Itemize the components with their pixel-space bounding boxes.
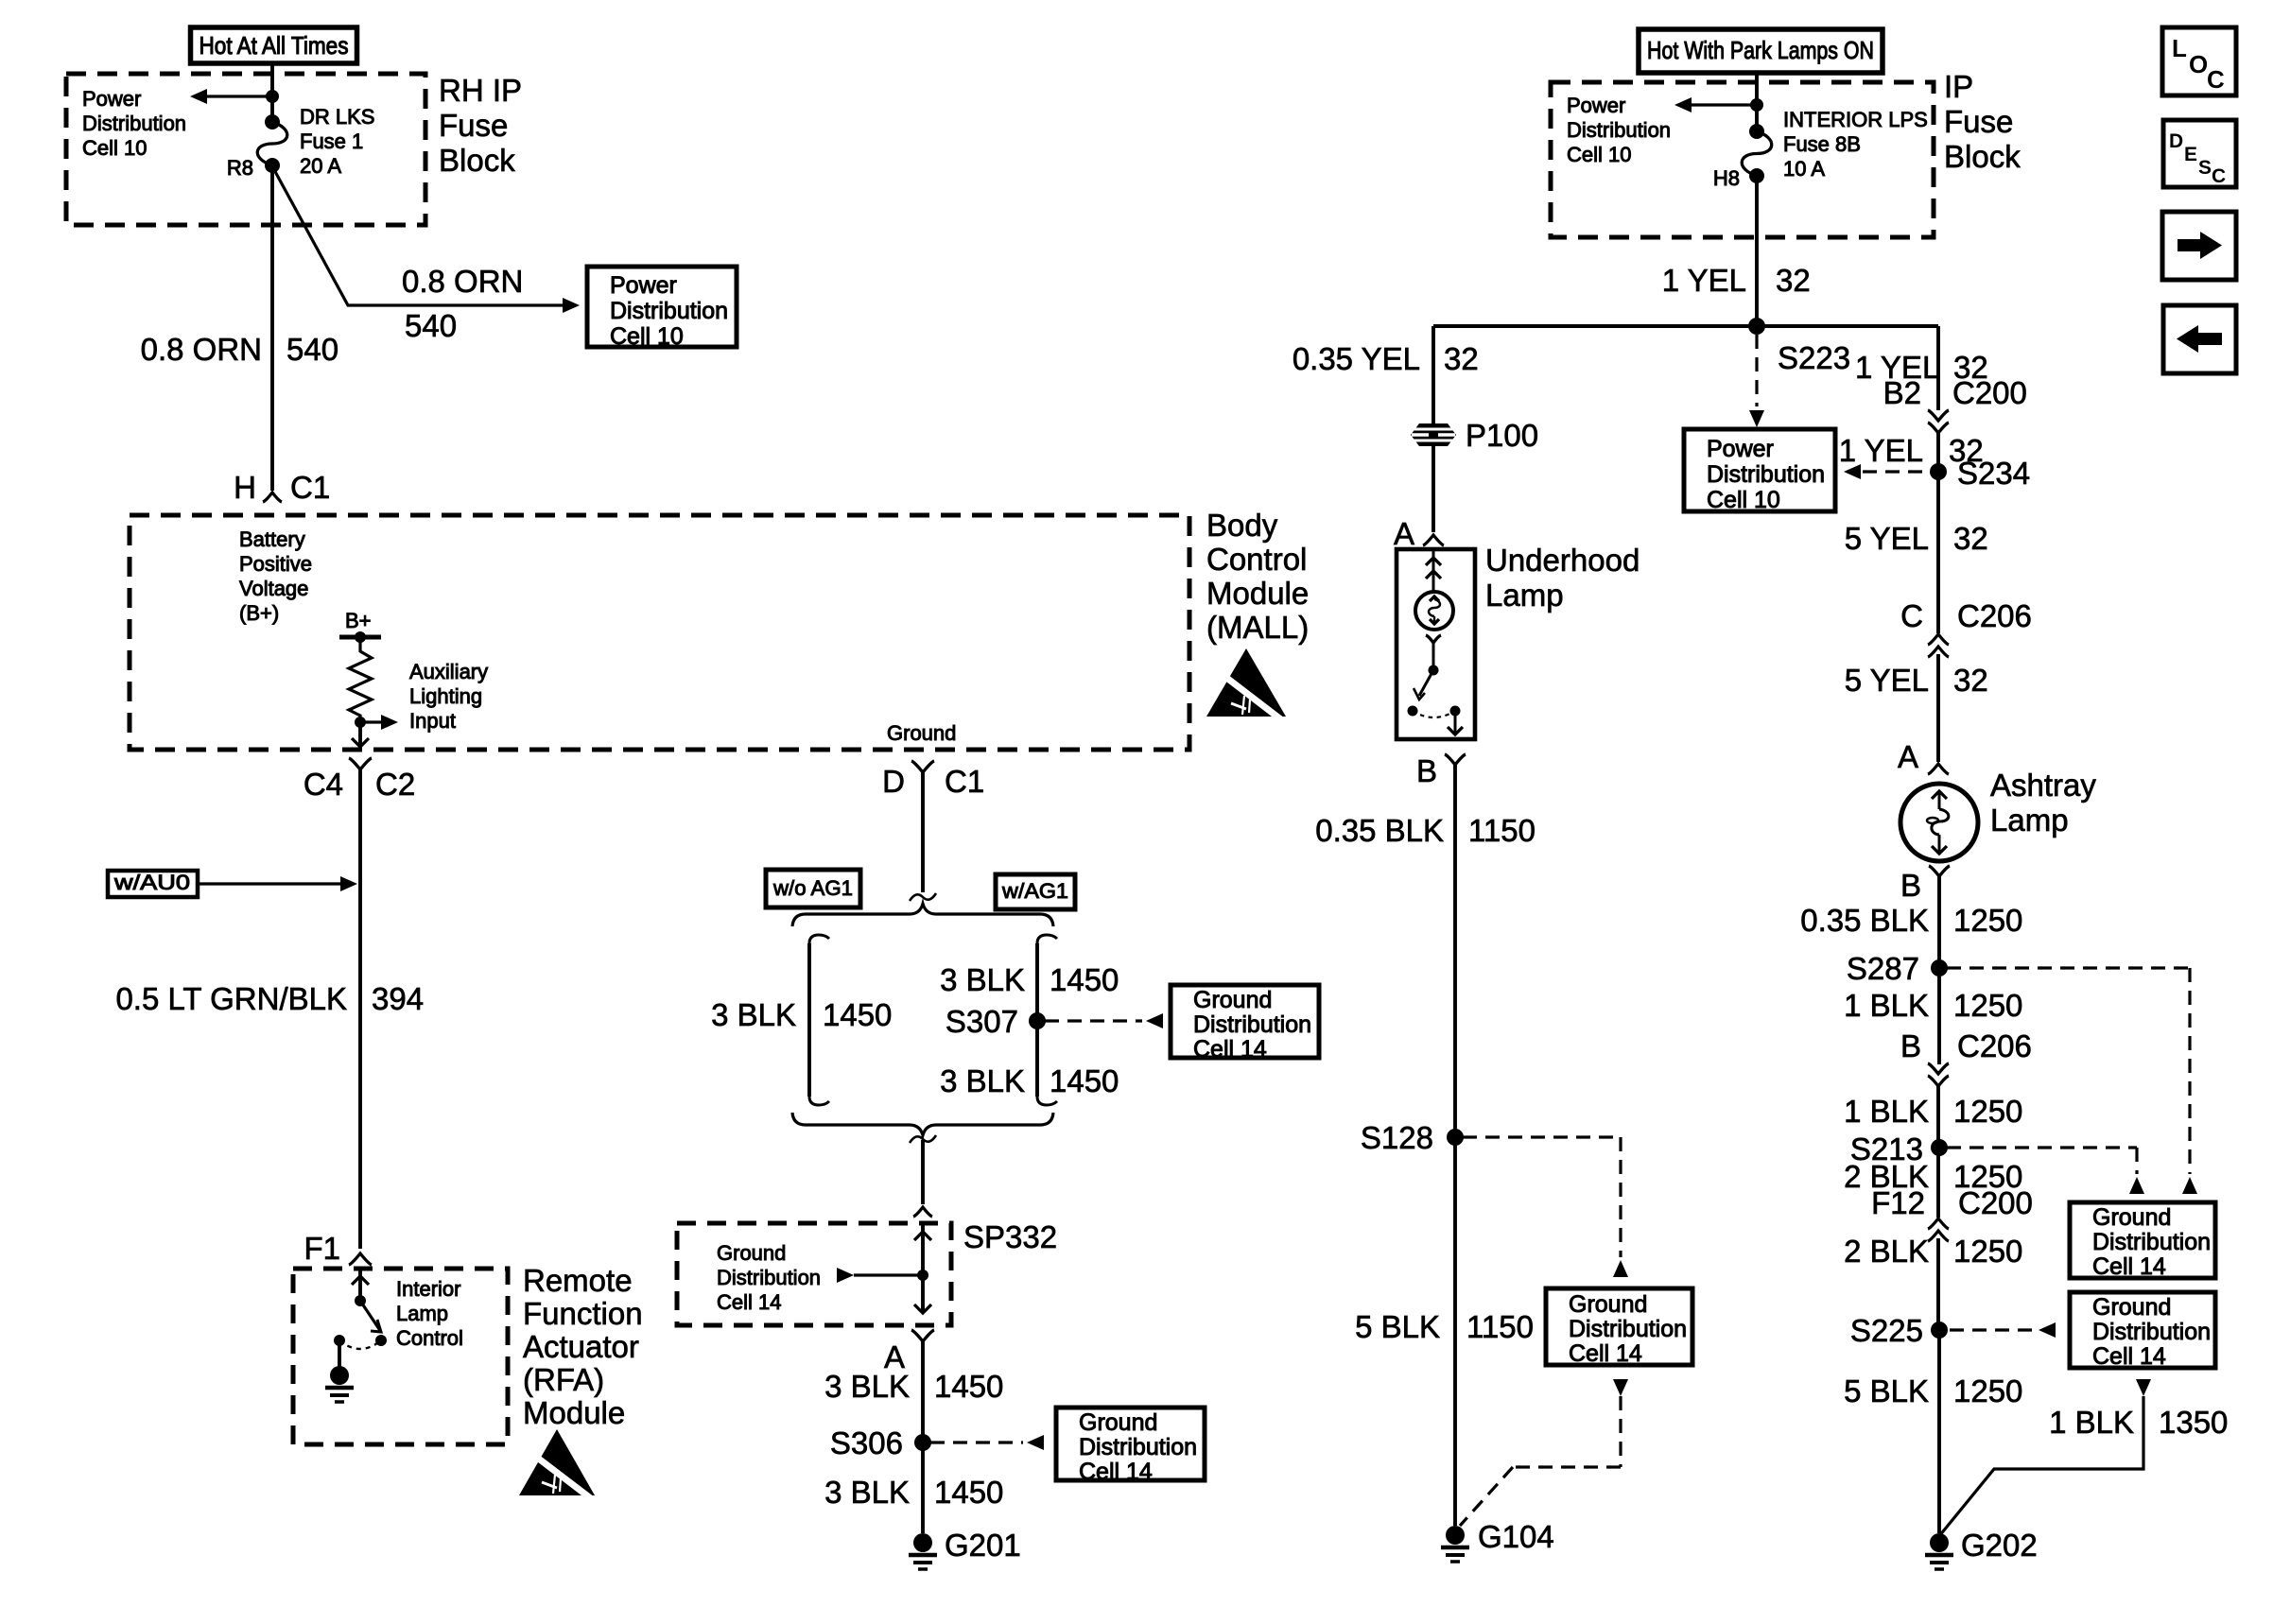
- svg-text:Cell 10: Cell 10: [82, 136, 147, 160]
- svg-text:0.35 YEL: 0.35 YEL: [1293, 341, 1420, 376]
- connector A below SP332 (chevron): [911, 1330, 934, 1341]
- IP Fuse Block dashed box: [1551, 82, 1934, 237]
- wire: left branch (w/o AG1): [809, 935, 829, 1105]
- break squiggle (top): [910, 893, 936, 901]
- label: 1 BLK 1250 (above C206 B): [1844, 988, 2022, 1023]
- svg-text:Lamp: Lamp: [1990, 803, 2069, 838]
- wire: C206 to S213: [1936, 1086, 1940, 1148]
- svg-text:5 BLK: 5 BLK: [1844, 1373, 1929, 1408]
- svg-text:Power: Power: [610, 272, 677, 299]
- svg-text:B+: B+: [345, 609, 372, 632]
- connector: ashtray lamp pin B (chevron): [1929, 866, 1950, 876]
- svg-text:2 BLK: 2 BLK: [1844, 1234, 1929, 1269]
- svg-text:Distribution: Distribution: [2092, 1229, 2211, 1255]
- svg-text:Lighting: Lighting: [409, 684, 482, 708]
- svg-text:Ashtray: Ashtray: [1990, 768, 2096, 803]
- fuse F8B: INTERIOR LPS Fuse 8B 10 A: [1742, 124, 1772, 183]
- svg-text:C1: C1: [290, 470, 330, 505]
- text: Auxiliary Lighting Input: [409, 660, 488, 733]
- brace: split w/o AG1 and w/AG1: [792, 904, 1053, 926]
- option box w/AG1: [996, 874, 1075, 909]
- svg-text:Actuator: Actuator: [523, 1329, 639, 1364]
- pin label H / C1: [234, 470, 330, 505]
- svg-text:Distribution: Distribution: [717, 1266, 821, 1289]
- connector C1 pin D (chevron): [911, 761, 934, 772]
- svg-text:1450: 1450: [823, 997, 892, 1032]
- svg-text:Remote: Remote: [523, 1263, 633, 1298]
- svg-text:1250: 1250: [1953, 1094, 2022, 1129]
- wire into RFA switch: [352, 1269, 369, 1299]
- svg-text:D: D: [882, 764, 905, 799]
- wire: P100 to underhood lamp: [1431, 446, 1435, 532]
- Body Control Module dashed box: [130, 515, 1189, 750]
- text: IP Fuse Block: [1944, 69, 2021, 174]
- svg-text:Power: Power: [82, 87, 141, 111]
- label: 1 BLK 1250 (above S213): [1844, 1094, 2022, 1129]
- svg-text:Distribution: Distribution: [1193, 1011, 1311, 1038]
- svg-text:Distribution: Distribution: [1569, 1316, 1687, 1342]
- label box: Hot With Park Lamps ON: [1639, 29, 1883, 73]
- svg-text:L: L: [2172, 34, 2187, 62]
- svg-text:C2: C2: [375, 767, 415, 802]
- svg-text:32: 32: [1953, 663, 1988, 698]
- svg-text:C4: C4: [304, 767, 343, 802]
- label: 3 BLK 1450 (below S307): [940, 1063, 1119, 1098]
- fuse F1: DR LKS Fuse 1 20 A: [257, 114, 287, 173]
- svg-text:Ground: Ground: [1193, 987, 1272, 1013]
- svg-text:D: D: [2169, 130, 2183, 152]
- dashed link S287 to ground distribution: [1947, 968, 2197, 1194]
- svg-text:w/AU0: w/AU0: [113, 871, 190, 894]
- wire: underhood lamp B to G104: [1453, 765, 1457, 1526]
- ref box: Power Distribution Cell 10: [587, 267, 737, 350]
- svg-text:Ground: Ground: [2092, 1294, 2171, 1321]
- svg-text:IP: IP: [1944, 69, 1973, 104]
- svg-text:1 BLK: 1 BLK: [1844, 988, 1929, 1023]
- connector C2 pin C4 (chevron): [349, 758, 372, 769]
- svg-text:1450: 1450: [934, 1369, 1003, 1404]
- label: 0.5 LT GRN/BLK 394: [115, 981, 424, 1016]
- text: RH IP Fuse Block: [439, 73, 522, 178]
- svg-text:Positive: Positive: [239, 552, 312, 576]
- wire: S223 bus to P100: [1431, 326, 1435, 424]
- svg-text:P100: P100: [1466, 418, 1538, 453]
- label: 5 BLK 1150: [1355, 1309, 1534, 1344]
- svg-text:E: E: [2184, 144, 2197, 165]
- svg-text:B: B: [1416, 753, 1437, 788]
- svg-text:C206: C206: [1957, 1028, 2032, 1063]
- splice S234: [1930, 456, 2030, 491]
- arrow: w/AU0 to wire: [198, 876, 357, 891]
- svg-text:Body: Body: [1206, 508, 1278, 543]
- dashed link ground distribution to G104: [1460, 1379, 1628, 1526]
- pin R8: [227, 156, 253, 180]
- RH IP Fuse Block dashed box: [66, 74, 425, 225]
- svg-text:F12: F12: [1871, 1185, 1925, 1220]
- svg-text:1 BLK: 1 BLK: [1844, 1094, 1929, 1129]
- svg-text:1 YEL: 1 YEL: [1839, 433, 1923, 468]
- wire: S287 to C206 B: [1937, 968, 1941, 1064]
- svg-text:S225: S225: [1850, 1313, 1923, 1348]
- option box w/o AG1: [766, 870, 860, 907]
- wire: S213 to F12 C200: [1936, 1148, 1940, 1218]
- connector C1 pin H (chevron): [263, 492, 282, 502]
- svg-text:Cell 10: Cell 10: [1567, 143, 1631, 166]
- connector: underhood lamp pin A (chevron): [1423, 535, 1444, 545]
- underhood lamp internals: [1408, 549, 1464, 734]
- svg-text:Hot With Park Lamps ON: Hot With Park Lamps ON: [1647, 36, 1874, 64]
- svg-text:Fuse 1: Fuse 1: [300, 130, 363, 153]
- svg-text:20 A: 20 A: [300, 154, 341, 178]
- svg-text:H: H: [234, 470, 256, 505]
- label: 2 BLK 1250 (below F12): [1844, 1234, 2022, 1269]
- label: 1 YEL 32 (above S223): [1662, 263, 1811, 298]
- pin label B (underhood lamp): [1416, 753, 1437, 788]
- connector C206 lower (inline): [1928, 1063, 1949, 1086]
- connector C200 lower (inline): [1928, 1218, 1949, 1241]
- wire: C206 to ashtray lamp: [1936, 654, 1940, 762]
- svg-text:32: 32: [1444, 341, 1479, 376]
- svg-text:Cell 14: Cell 14: [1193, 1036, 1267, 1063]
- svg-text:SP332: SP332: [963, 1219, 1057, 1254]
- svg-text:Distribution: Distribution: [1707, 461, 1825, 488]
- svg-text:F1: F1: [304, 1231, 340, 1266]
- svg-text:Ground: Ground: [1569, 1291, 1647, 1318]
- svg-text:w/o AG1: w/o AG1: [772, 876, 853, 900]
- dashed link S225 to ground distribution: [1950, 1322, 2056, 1338]
- ESD symbol (RFA): [519, 1429, 595, 1499]
- connector: underhood lamp pin B (chevron): [1445, 754, 1466, 765]
- svg-text:S128: S128: [1361, 1120, 1433, 1155]
- svg-text:Auxiliary: Auxiliary: [409, 660, 488, 683]
- label box: Hot At All Times: [191, 27, 357, 63]
- svg-text:Power: Power: [1567, 94, 1625, 117]
- svg-text:0.8 ORN: 0.8 ORN: [141, 332, 262, 367]
- pin label B (ashtray lamp): [1900, 868, 1921, 903]
- label: 3 BLK 1450 (above S307): [940, 962, 1119, 997]
- svg-text:S234: S234: [1957, 456, 2030, 491]
- label: 0.35 BLK 1250: [1800, 903, 2022, 938]
- pin label B2 / C200: [1883, 375, 2027, 410]
- pin label A (SP332): [884, 1339, 905, 1374]
- pin label D / C1: [882, 764, 984, 799]
- svg-text:Fuse 8B: Fuse 8B: [1783, 132, 1861, 156]
- svg-text:Module: Module: [523, 1395, 625, 1430]
- svg-text:Cell 10: Cell 10: [610, 323, 684, 350]
- wire: C200 to S225: [1936, 1238, 1940, 1330]
- svg-text:0.35 BLK: 0.35 BLK: [1800, 903, 1929, 938]
- ref box: Ground Distribution Cell 14 (upper right): [2070, 1202, 2215, 1280]
- splice S287: [1847, 951, 1948, 986]
- svg-text:RH IP: RH IP: [439, 73, 522, 108]
- svg-text:5 YEL: 5 YEL: [1845, 663, 1929, 698]
- wire: right branch (w/AG1): [1037, 935, 1057, 1105]
- text: INTERIOR LPS Fuse 8B 10 A: [1783, 108, 1928, 181]
- connector F1 (chevron): [349, 1253, 372, 1265]
- svg-text:C: C: [1900, 598, 1923, 633]
- ref box: Ground Distribution Cell 14 (S306): [1056, 1408, 1205, 1485]
- break squiggle (bottom): [910, 1135, 936, 1143]
- label: 3 BLK 1450 (left branch): [711, 997, 892, 1032]
- svg-text:G202: G202: [1961, 1528, 2038, 1563]
- text: Ashtray Lamp: [1990, 768, 2096, 838]
- text: Underhood Lamp: [1485, 543, 1640, 613]
- svg-text:C206: C206: [1957, 598, 2032, 633]
- wire: SP332 to G201: [921, 1341, 925, 1533]
- svg-text:S307: S307: [946, 1004, 1018, 1039]
- svg-text:(MALL): (MALL): [1206, 610, 1309, 645]
- svg-text:Block: Block: [439, 143, 515, 178]
- svg-text:Input: Input: [409, 709, 456, 733]
- svg-text:3 BLK: 3 BLK: [940, 962, 1025, 997]
- svg-text:G104: G104: [1478, 1519, 1554, 1554]
- pin label A (underhood lamp): [1394, 516, 1414, 551]
- wire: D to brace: [921, 772, 925, 892]
- wire: C2 to F1 (0.5 LT GRN/BLK 394): [358, 769, 362, 1249]
- svg-text:3 BLK: 3 BLK: [940, 1063, 1025, 1098]
- resistor: Auxiliary Lighting (in BCM): [349, 637, 372, 722]
- label: 0.35 YEL 32: [1293, 341, 1479, 376]
- svg-text:A: A: [1898, 739, 1918, 774]
- wire: S223 to B2 C200: [1936, 326, 1940, 410]
- svg-text:R8: R8: [227, 156, 253, 180]
- svg-text:Block: Block: [1944, 139, 2021, 174]
- svg-text:C1: C1: [945, 764, 984, 799]
- svg-text:S223: S223: [1778, 340, 1850, 375]
- splice S307: [946, 1004, 1046, 1039]
- lamp: Ashtray Lamp: [1900, 784, 1978, 861]
- svg-text:1 BLK: 1 BLK: [2049, 1405, 2134, 1440]
- svg-text:Module: Module: [1206, 576, 1309, 611]
- svg-text:A: A: [1394, 516, 1414, 551]
- pin label A (ashtray lamp): [1898, 739, 1918, 774]
- Remote Function Actuator dashed box: [293, 1269, 508, 1444]
- pin label B / C206 (lower): [1900, 1028, 2032, 1063]
- svg-text:Distribution: Distribution: [1567, 118, 1671, 142]
- ground G104: [1441, 1519, 1554, 1562]
- svg-text:Power: Power: [1707, 436, 1774, 462]
- wire: S234 to C206: [1936, 472, 1940, 633]
- pin label C / C206: [1900, 598, 2032, 633]
- svg-text:Voltage: Voltage: [239, 577, 308, 600]
- svg-text:32: 32: [1776, 263, 1811, 298]
- ground (inside RFA): [325, 1340, 354, 1402]
- svg-text:C200: C200: [1958, 1185, 2033, 1220]
- svg-text:1450: 1450: [1050, 962, 1119, 997]
- label: 5 BLK 1250: [1844, 1373, 2022, 1408]
- svg-text:Cell 14: Cell 14: [1079, 1459, 1153, 1485]
- wire through SP332: [914, 1223, 931, 1313]
- wire: fuse 8B to S223: [1755, 176, 1759, 326]
- text: Power Distribution Cell 10 (IP fuse block): [1567, 94, 1671, 166]
- svg-text:Cell 14: Cell 14: [717, 1290, 781, 1314]
- label: 0.35 BLK 1150: [1315, 813, 1536, 848]
- svg-text:Ground: Ground: [1079, 1409, 1157, 1436]
- wire: ashtray lamp B to S287: [1937, 876, 1941, 968]
- dashed link S306 to ground distribution: [930, 1435, 1044, 1450]
- icon: left arrow: [2163, 305, 2236, 373]
- svg-text:1450: 1450: [1050, 1063, 1119, 1098]
- label: 0.8 ORN 540 (branch): [402, 264, 523, 343]
- svg-text:Ground: Ground: [2092, 1204, 2171, 1231]
- ground G201: [909, 1528, 1021, 1569]
- svg-text:Distribution: Distribution: [2092, 1319, 2211, 1345]
- svg-text:1150: 1150: [1466, 1309, 1534, 1344]
- label SP332: [963, 1219, 1057, 1254]
- dashed link S307 to ground distribution: [1045, 1013, 1163, 1028]
- icon: LOC: [2162, 27, 2236, 95]
- Underhood Lamp box: [1397, 549, 1475, 739]
- text: Interior Lamp Control: [396, 1277, 463, 1350]
- svg-text:1150: 1150: [1468, 813, 1536, 848]
- svg-text:0.5 LT GRN/BLK: 0.5 LT GRN/BLK: [115, 981, 347, 1016]
- svg-text:DR LKS: DR LKS: [300, 105, 374, 129]
- svg-text:Control: Control: [1206, 542, 1307, 577]
- dashed link S223 to power distribution: [1749, 335, 1764, 427]
- svg-text:10 A: 10 A: [1783, 157, 1825, 181]
- label: 5 YEL 32 (below C206): [1845, 663, 1988, 698]
- ref box: Ground Distribution Cell 14 (S307): [1171, 985, 1319, 1063]
- svg-text:(B+): (B+): [239, 601, 279, 625]
- wire: label box to fuse 8B: [1755, 74, 1759, 131]
- label: 3 BLK 1450 (below S306): [824, 1475, 1003, 1510]
- svg-text:INTERIOR LPS: INTERIOR LPS: [1783, 108, 1928, 131]
- svg-text:Control: Control: [396, 1326, 463, 1350]
- wire: bus S223 horizontal: [1433, 324, 1938, 328]
- svg-text:Lamp: Lamp: [396, 1302, 448, 1325]
- pin H8: [1713, 166, 1740, 190]
- dashed link S128 to ground distribution: [1463, 1137, 1628, 1277]
- icon: DESC: [2163, 120, 2236, 187]
- node: SP332 junction: [917, 1270, 928, 1281]
- wire: C200 to S234: [1936, 433, 1940, 472]
- svg-text:0.35 BLK: 0.35 BLK: [1315, 813, 1444, 848]
- svg-text:Fuse: Fuse: [439, 108, 508, 143]
- label: 1 YEL 32 (above S234): [1839, 433, 1984, 468]
- svg-text:540: 540: [286, 332, 338, 367]
- splice S223: [1748, 318, 1850, 375]
- svg-text:394: 394: [372, 981, 424, 1016]
- svg-text:540: 540: [405, 308, 457, 343]
- svg-text:B: B: [1900, 1028, 1921, 1063]
- svg-text:3 BLK: 3 BLK: [824, 1475, 910, 1510]
- arrow to Power Distribution Cell 10 (left): [190, 89, 272, 104]
- connector C200 (inline): [1928, 410, 1949, 433]
- svg-text:32: 32: [1953, 521, 1988, 556]
- svg-text:w/AG1: w/AG1: [1001, 879, 1068, 903]
- pin label F1: [304, 1231, 340, 1266]
- ESD symbol (BCM): [1206, 648, 1286, 720]
- text: Remote Function Actuator (RFA) Module: [523, 1263, 643, 1430]
- label: 2 BLK 1250 (above F12): [1844, 1159, 2022, 1194]
- label: 5 YEL 32 (above C206): [1845, 521, 1988, 556]
- text: DR LKS Fuse 1 20 A: [300, 105, 374, 178]
- svg-text:Hot At All Times: Hot At All Times: [200, 31, 349, 60]
- switch: Interior Lamp Control: [334, 1295, 387, 1349]
- wire: branch to Power Distribution Cell 10: [272, 166, 580, 313]
- svg-text:1250: 1250: [1953, 988, 2022, 1023]
- svg-text:Distribution: Distribution: [1079, 1434, 1197, 1460]
- svg-text:C200: C200: [1952, 375, 2027, 410]
- svg-text:1250: 1250: [1953, 1234, 2022, 1269]
- icon: right arrow: [2162, 212, 2236, 280]
- svg-text:B: B: [1900, 868, 1921, 903]
- splice S213: [1850, 1132, 1948, 1166]
- label: 1 YEL 32 (right of S223): [1855, 350, 1988, 385]
- svg-text:Ground: Ground: [887, 721, 956, 745]
- svg-text:C: C: [2207, 65, 2225, 94]
- svg-text:3 BLK: 3 BLK: [824, 1369, 910, 1404]
- node: junction at fuse 8B feed: [1750, 98, 1763, 112]
- splice S225: [1850, 1313, 1948, 1348]
- svg-text:Interior: Interior: [396, 1277, 460, 1301]
- wire: B+ resistor to pin C2 (exit arrow): [352, 722, 369, 747]
- svg-text:G201: G201: [945, 1528, 1021, 1563]
- svg-text:Cell 14: Cell 14: [2092, 1253, 2166, 1280]
- node: auxiliary lighting input junction: [355, 715, 398, 730]
- svg-text:(RFA): (RFA): [523, 1362, 604, 1397]
- ref box: Ground Distribution Cell 14 (lower right): [2070, 1292, 2215, 1370]
- svg-text:1 YEL: 1 YEL: [1662, 263, 1746, 298]
- node: junction at fuse feed: [266, 90, 279, 103]
- svg-text:Cell 14: Cell 14: [2092, 1343, 2166, 1370]
- pin label C4 / C2: [304, 767, 415, 802]
- svg-text:1250: 1250: [1953, 1373, 2022, 1408]
- label: 1 BLK 1350: [2049, 1405, 2228, 1440]
- svg-text:Ground: Ground: [717, 1241, 786, 1265]
- dashed link S213 to ground distribution: [1947, 1148, 2144, 1194]
- wire: S225 to G202: [1937, 1330, 1941, 1533]
- connector: ashtray lamp pin A (chevron): [1928, 764, 1949, 774]
- svg-text:Lamp: Lamp: [1485, 578, 1564, 613]
- splice pack SP332 dashed box: [677, 1223, 951, 1325]
- text: Ground (BCM pin D): [887, 721, 956, 745]
- ref box: Power Distribution Cell 10 (S223): [1684, 429, 1835, 513]
- svg-text:3 BLK: 3 BLK: [711, 997, 796, 1032]
- svg-text:1250: 1250: [1953, 903, 2022, 938]
- wire: label box to fuse: [270, 65, 274, 122]
- pass-through grommet P100: [1411, 418, 1538, 453]
- splice S128: [1361, 1120, 1464, 1155]
- text+arrow: Ground Distribution Cell 14 (SP332): [717, 1241, 923, 1314]
- ground G202: [1925, 1528, 2038, 1569]
- svg-text:5 YEL: 5 YEL: [1845, 521, 1929, 556]
- splice S306: [830, 1425, 931, 1460]
- arrow to Power Distribution Cell 10 (IP): [1674, 97, 1757, 112]
- svg-text:S: S: [2198, 157, 2212, 179]
- svg-text:5 BLK: 5 BLK: [1355, 1309, 1440, 1344]
- ref box: Ground Distribution Cell 14 (S128): [1546, 1288, 1692, 1367]
- pin label F12 / C200: [1871, 1185, 2033, 1220]
- svg-text:Function: Function: [523, 1296, 643, 1331]
- wire: brace to SP332: [913, 1140, 932, 1217]
- svg-text:Cell 14: Cell 14: [1569, 1340, 1642, 1367]
- svg-text:0.8 ORN: 0.8 ORN: [402, 264, 523, 299]
- dashed link S234 to power distribution: [1844, 464, 1931, 479]
- svg-text:Fuse: Fuse: [1944, 104, 2013, 139]
- option box w/AU0: [108, 871, 198, 897]
- label: 0.8 ORN 540 (left wire): [141, 332, 338, 367]
- wire: fuse to connector C1 pin H: [270, 165, 274, 491]
- svg-text:Underhood: Underhood: [1485, 543, 1640, 578]
- svg-text:S306: S306: [830, 1425, 903, 1460]
- svg-text:Cell 10: Cell 10: [1707, 487, 1780, 513]
- terminal B+: [339, 609, 381, 643]
- svg-text:B2: B2: [1883, 375, 1921, 410]
- text: Battery Positive Voltage (B+): [239, 527, 312, 625]
- svg-text:1350: 1350: [2159, 1405, 2228, 1440]
- wire: 1 BLK 1350 to G202: [1939, 1379, 2151, 1536]
